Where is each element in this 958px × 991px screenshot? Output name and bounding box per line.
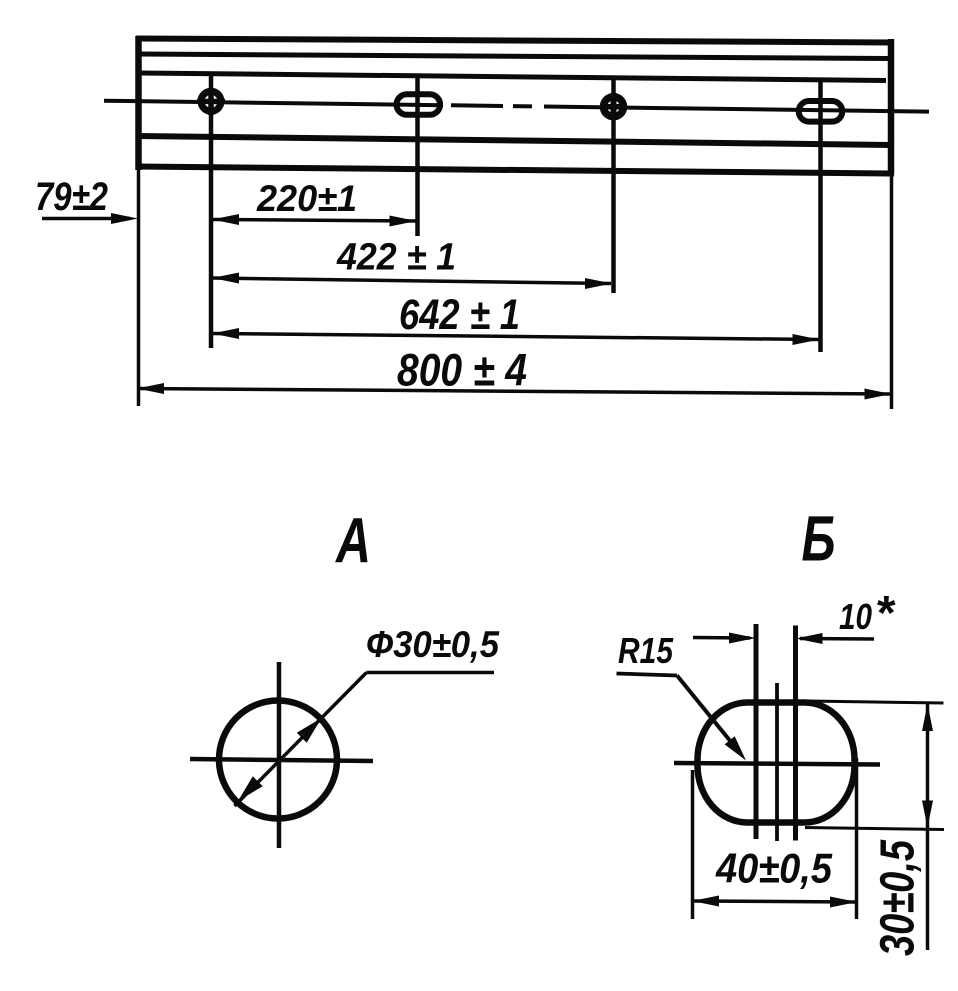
svg-text:800 ± 4: 800 ± 4 — [397, 345, 527, 396]
svg-text:40±0,5: 40±0,5 — [715, 845, 832, 892]
svg-text:642 ± 1: 642 ± 1 — [399, 291, 520, 339]
dim 422±1 right arrowhead — [585, 278, 612, 289]
view B slot right line — [793, 626, 798, 841]
dim 220±1 line — [213, 220, 417, 222]
hole 3 round — [604, 97, 624, 117]
view A leader shelf — [367, 671, 495, 675]
rail line 4 — [136, 136, 894, 145]
rail axis centerline segment 3 — [544, 107, 929, 112]
dim 422±1 left arrowhead — [212, 273, 239, 284]
rail line 2 — [139, 54, 888, 59]
dim 40 line — [694, 901, 855, 902]
rail axis centerline segment 2 — [451, 103, 503, 108]
hole 4 vertical centerline / extension line — [818, 81, 823, 352]
hole 1 round — [201, 91, 221, 111]
svg-text:*: * — [875, 587, 896, 640]
dim 30 bottom extension line — [805, 828, 944, 830]
dim 10* left line — [693, 636, 750, 640]
rail axis centerline segment 1 — [104, 101, 443, 106]
R15 arrowhead — [725, 736, 746, 760]
dim 30 vertical line — [926, 703, 930, 950]
hole 4 oval — [799, 101, 843, 122]
rail top edge — [136, 39, 894, 43]
hole 2 oval — [397, 94, 441, 115]
view B oval shape — [698, 703, 855, 823]
view A vertical centerline — [277, 662, 282, 848]
rail axis centerline dash — [513, 104, 532, 108]
right edge extension line — [890, 174, 894, 409]
view A hole circle — [219, 701, 337, 819]
left edge extension line — [137, 170, 141, 406]
hole 3 vertical centerline / extension line — [611, 77, 616, 293]
dim 220±1 left arrowhead — [212, 214, 239, 225]
hole 2 vertical centerline / extension line — [415, 75, 420, 237]
rail line 3 — [139, 73, 886, 81]
dim 800±4 line — [139, 389, 890, 395]
R15 leader diagonal — [677, 676, 740, 754]
svg-text:30±0,5: 30±0,5 — [872, 839, 925, 956]
dim 10* left arrowhead — [729, 633, 756, 644]
dim 40 left arrowhead — [692, 896, 719, 907]
svg-text:10: 10 — [839, 596, 872, 637]
svg-text:79±2: 79±2 — [35, 175, 108, 219]
dim 800±4 left arrowhead — [137, 383, 164, 394]
view A leader arrowhead lower — [238, 776, 263, 801]
dim 800±4 right arrowhead — [865, 389, 892, 400]
R15 leader shelf — [617, 674, 678, 676]
svg-text:Б: Б — [802, 503, 836, 575]
view B horizontal centerline — [674, 763, 880, 765]
view A horizontal centerline — [190, 759, 373, 761]
dim 79±2 line — [42, 217, 130, 221]
dim 10* right arrowhead — [796, 633, 823, 644]
dim 10* right line — [800, 637, 874, 641]
svg-text:422 ± 1: 422 ± 1 — [336, 237, 456, 279]
rail right edge — [888, 39, 895, 174]
svg-text:220±1: 220±1 — [256, 178, 357, 219]
hole 1 cross bars — [208, 88, 214, 115]
view A diameter leader diagonal — [235, 673, 367, 807]
dim 30 top extension line — [808, 701, 944, 703]
svg-text:Ф30±0,5: Ф30±0,5 — [366, 624, 500, 665]
dim 642±1 left arrowhead — [212, 328, 239, 339]
dim 30 down arrowhead — [922, 801, 933, 828]
view B vertical centerline — [775, 683, 779, 841]
view A leader arrowhead upper — [297, 718, 322, 743]
svg-text:А: А — [334, 505, 371, 577]
dim 79±2 arrowhead — [111, 213, 138, 224]
dim 642±1 right arrowhead — [793, 334, 820, 345]
hole 1 vertical centerline / extension line — [209, 74, 214, 348]
dim 220±1 right arrowhead — [390, 216, 417, 227]
rail left edge — [135, 36, 142, 170]
dim 422±1 line — [213, 278, 611, 284]
dim 40 left extension line — [691, 770, 695, 919]
dim 642±1 line — [213, 334, 819, 340]
dim 40 right arrowhead — [830, 897, 857, 908]
svg-text:R15: R15 — [618, 630, 674, 671]
rail bottom edge — [136, 167, 894, 174]
dim 30 up arrowhead — [922, 704, 933, 731]
hole 3 cross bars — [611, 93, 617, 120]
view B slot left line — [754, 624, 759, 839]
dim 40 right extension line — [855, 758, 859, 919]
